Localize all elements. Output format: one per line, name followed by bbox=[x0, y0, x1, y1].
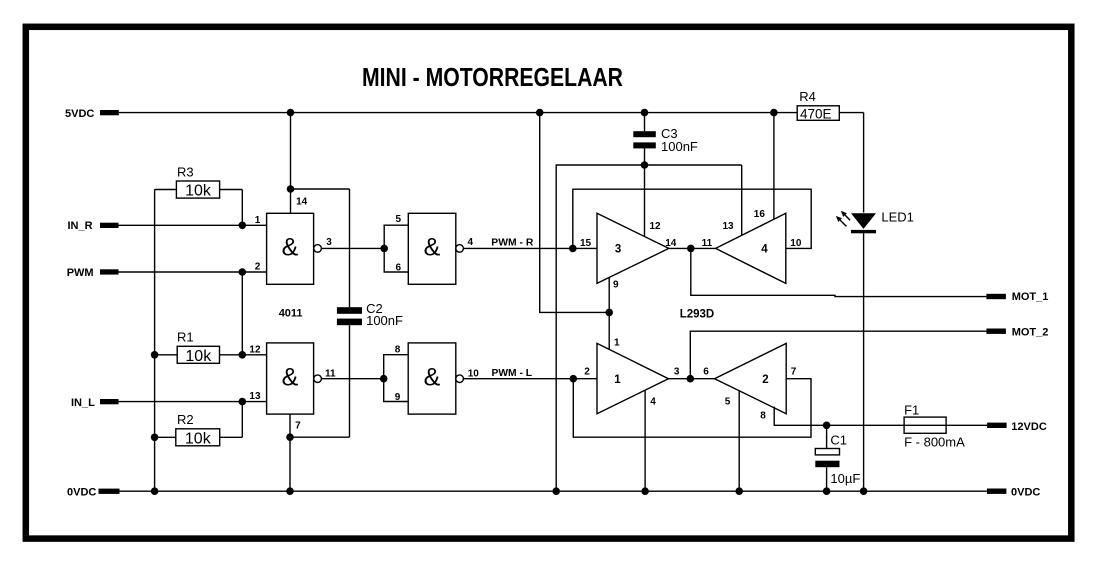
svg-text:10k: 10k bbox=[185, 430, 212, 447]
resistor R4 bbox=[797, 106, 839, 121]
wire R2 left bbox=[155, 436, 176, 438]
wire PWM to pin 2 bbox=[119, 271, 267, 273]
wire 5VDC rail bbox=[119, 112, 797, 114]
terminal pad 0VDC left bbox=[99, 489, 120, 494]
svg-text:3: 3 bbox=[674, 366, 680, 377]
svg-text:2: 2 bbox=[762, 374, 768, 386]
svg-text:12: 12 bbox=[650, 221, 662, 232]
resistor R1 bbox=[177, 346, 219, 363]
svg-text:IN_R: IN_R bbox=[68, 220, 93, 232]
wire R3 left bbox=[155, 189, 177, 191]
svg-text:C1: C1 bbox=[830, 433, 847, 448]
svg-text:14: 14 bbox=[665, 238, 677, 249]
wire pin 4 to 0VDC bbox=[644, 390, 646, 491]
svg-text:11: 11 bbox=[325, 368, 336, 379]
svg-text:MOT_2: MOT_2 bbox=[1012, 326, 1049, 338]
svg-text:13: 13 bbox=[249, 391, 261, 402]
wire C3 lower lead / pin 12 gnd bbox=[644, 148, 646, 236]
svg-text:5: 5 bbox=[725, 397, 731, 408]
svg-text:PWM - R: PWM - R bbox=[491, 238, 534, 249]
svg-text:MINI - MOTORREGELAAR: MINI - MOTORREGELAAR bbox=[362, 64, 623, 92]
wire gate D input loop bbox=[384, 355, 409, 402]
junction gate D input loop bbox=[380, 375, 388, 383]
diode LED1 bbox=[851, 213, 876, 229]
wire IN_L down to R2 bbox=[241, 402, 243, 438]
svg-text:&: & bbox=[424, 234, 441, 262]
wire ground branch to 0VDC bbox=[556, 165, 742, 491]
svg-text:1: 1 bbox=[614, 338, 620, 349]
junction MOT_1 output bbox=[687, 245, 695, 253]
svg-text:LED1: LED1 bbox=[881, 210, 914, 225]
wire pin 13 gnd bbox=[741, 165, 743, 236]
svg-text:PWM: PWM bbox=[67, 267, 94, 279]
svg-text:1: 1 bbox=[255, 215, 261, 226]
svg-text:7: 7 bbox=[295, 421, 301, 432]
wire outputs 14-11 bbox=[669, 247, 716, 249]
junction 5VDC/C3 bbox=[641, 109, 649, 117]
fuse F1 bbox=[904, 417, 946, 433]
junction 0VDC/pin4 bbox=[641, 487, 649, 495]
LED light arrow b bbox=[840, 220, 846, 226]
terminal pad MOT_1 bbox=[986, 294, 1006, 299]
wire R1 right to pin 12 bbox=[220, 354, 267, 356]
wire R2 right bbox=[220, 436, 243, 438]
junction enable pins 9/1 bbox=[605, 309, 613, 317]
resistor R2 bbox=[176, 429, 220, 446]
svg-text:R4: R4 bbox=[799, 89, 816, 104]
svg-text:IN_L: IN_L bbox=[71, 397, 95, 409]
wire pin 5 to 0VDC bbox=[738, 391, 740, 491]
gate U1C 4011 NAND C bbox=[267, 343, 314, 414]
capacitor C1 bbox=[826, 425, 828, 448]
junction 0VDC/LED bbox=[860, 487, 868, 495]
wire R4 to LED bbox=[839, 112, 863, 114]
svg-text:14: 14 bbox=[296, 197, 308, 208]
wire gate C out to gate D in bbox=[321, 378, 383, 380]
LED light arrow a bbox=[845, 215, 850, 220]
svg-text:10: 10 bbox=[790, 238, 802, 249]
svg-text:100nF: 100nF bbox=[661, 139, 698, 154]
wire pin2 to pin7 loop bbox=[573, 379, 811, 438]
svg-text:6: 6 bbox=[396, 263, 402, 274]
wire R1 left bbox=[155, 354, 178, 356]
svg-text:9: 9 bbox=[613, 280, 619, 291]
wire enable pins vertical bbox=[608, 278, 610, 350]
junction gnd/C3 bbox=[641, 161, 649, 169]
svg-text:5: 5 bbox=[396, 214, 402, 225]
wire R3 to IN_R node bbox=[241, 190, 243, 226]
svg-text:10k: 10k bbox=[185, 348, 212, 365]
capacitor C2 bbox=[337, 307, 362, 314]
svg-text:470E: 470E bbox=[800, 106, 832, 121]
junction MOT_2 output bbox=[687, 375, 695, 383]
svg-text:4: 4 bbox=[468, 237, 474, 248]
terminal pad MOT_2 bbox=[986, 329, 1006, 334]
wire pin 8 supply bbox=[774, 407, 826, 426]
svg-text:13: 13 bbox=[723, 221, 735, 232]
junction 0VDC/pin7 bbox=[286, 487, 294, 495]
junction 5VDC/pin14 bbox=[287, 109, 295, 117]
buffer 4 L293D bbox=[716, 213, 786, 283]
svg-text:4: 4 bbox=[761, 243, 768, 255]
wire pin 14 from 5VDC rail to gate U1A bbox=[290, 113, 292, 214]
svg-text:&: & bbox=[282, 234, 299, 262]
wire C2 upper lead bbox=[349, 189, 351, 307]
junction 5VDC/enable branch bbox=[536, 109, 544, 117]
svg-text:16: 16 bbox=[754, 209, 766, 220]
bubble gate D output bbox=[456, 375, 464, 383]
svg-text:3: 3 bbox=[326, 237, 332, 248]
terminal pad IN_L bbox=[100, 399, 119, 404]
op-amp U1A gate 4011 NAND A bbox=[267, 213, 314, 284]
wire outputs 3-6 bbox=[669, 378, 715, 380]
gate U1B 4011 NAND B bbox=[408, 213, 456, 284]
svg-text:F - 800mA: F - 800mA bbox=[904, 434, 965, 449]
bubble gate A output bbox=[314, 245, 322, 253]
wire left pulldown bus bbox=[154, 190, 156, 492]
wire LED cathode to 0VDC bbox=[863, 233, 865, 491]
svg-text:6: 6 bbox=[703, 366, 709, 377]
terminal pad 12VDC bbox=[987, 423, 1007, 428]
wire R3 right bbox=[220, 189, 243, 191]
wire C2 lower lead bbox=[349, 325, 351, 437]
svg-text:PWM - L: PWM - L bbox=[492, 368, 533, 379]
wire MOT_2 bbox=[690, 331, 986, 379]
svg-text:&: & bbox=[424, 363, 441, 391]
svg-text:8: 8 bbox=[395, 345, 401, 356]
terminal pad 0VDC right bbox=[987, 489, 1007, 494]
svg-text:2: 2 bbox=[584, 366, 590, 377]
svg-text:100nF: 100nF bbox=[366, 313, 403, 328]
wire PWM-L net bbox=[463, 378, 597, 380]
svg-text:12VDC: 12VDC bbox=[1011, 421, 1047, 433]
wire pin 16 to 5VDC bbox=[773, 113, 775, 220]
junction 5VDC/pin16 bbox=[770, 109, 778, 117]
capacitor C3 bbox=[633, 131, 656, 137]
svg-text:R3: R3 bbox=[177, 165, 194, 180]
junction gate B input loop bbox=[380, 245, 388, 253]
wire MOT_1 bbox=[691, 248, 987, 296]
svg-text:15: 15 bbox=[580, 238, 592, 249]
svg-text:5VDC: 5VDC bbox=[65, 108, 94, 120]
junction 12VDC/C1 bbox=[823, 422, 831, 430]
junction IN_R/R3 bbox=[239, 222, 247, 230]
svg-text:0VDC: 0VDC bbox=[1011, 487, 1040, 499]
wire 0VDC rail bbox=[120, 490, 987, 492]
junction R2/left bus bbox=[151, 434, 159, 442]
svg-text:12: 12 bbox=[249, 344, 261, 355]
junction pin15 bbox=[569, 245, 577, 253]
junction IN_L/R2 bbox=[239, 398, 247, 406]
wire 12VDC net bbox=[827, 424, 988, 426]
junction 0VDC/C1 bbox=[823, 487, 831, 495]
svg-text:10k: 10k bbox=[185, 183, 212, 200]
svg-text:1: 1 bbox=[614, 374, 621, 386]
terminal pad IN_R bbox=[100, 223, 119, 228]
junction PWM branch bbox=[239, 268, 247, 276]
bubble gate C output bbox=[314, 375, 322, 383]
svg-text:4: 4 bbox=[650, 397, 656, 408]
terminal pad 5VDC bbox=[100, 110, 119, 115]
terminal pad PWM bbox=[100, 269, 119, 274]
bubble gate B output bbox=[456, 245, 464, 253]
wire IN_R to pin 1 bbox=[119, 224, 267, 226]
junction pin14/C2 branch bbox=[287, 185, 295, 193]
gate U1D 4011 NAND D bbox=[408, 343, 456, 414]
wire pin7 to C2 bottom bbox=[290, 436, 350, 438]
svg-text:11: 11 bbox=[702, 238, 713, 249]
svg-text:R1: R1 bbox=[177, 330, 194, 345]
wire PWM-R net bbox=[463, 247, 597, 249]
wire PWM down to pin 12 node bbox=[241, 272, 243, 355]
svg-text:&: & bbox=[282, 363, 299, 391]
wire gate A out to gate B in bbox=[321, 247, 384, 249]
svg-text:10: 10 bbox=[468, 368, 480, 379]
wire gate B input loop bbox=[384, 225, 408, 272]
junction 0VDC/gnd loop bbox=[552, 487, 560, 495]
wire C3 upper lead bbox=[644, 113, 646, 132]
buffer 2 L293D bbox=[715, 343, 787, 413]
svg-text:7: 7 bbox=[791, 366, 797, 377]
svg-text:0VDC: 0VDC bbox=[67, 486, 96, 498]
svg-text:3: 3 bbox=[615, 243, 621, 255]
junction 0VDC/pin5 bbox=[735, 487, 743, 495]
junction pin2 L293D bbox=[570, 375, 578, 383]
svg-text:2: 2 bbox=[255, 262, 261, 273]
junction R1/left bus bbox=[151, 351, 159, 359]
wire LED anode lead bbox=[863, 113, 865, 213]
wire enable branch from 5VDC bbox=[540, 113, 610, 313]
svg-text:L293D: L293D bbox=[680, 309, 715, 321]
junction pin7/C2 bbox=[286, 433, 294, 441]
resistor R3 bbox=[176, 181, 219, 198]
svg-text:9: 9 bbox=[395, 392, 401, 403]
svg-text:10µF: 10µF bbox=[830, 471, 860, 486]
svg-text:4011: 4011 bbox=[279, 308, 303, 320]
buffer 1 L293D bbox=[597, 343, 669, 413]
svg-text:F1: F1 bbox=[904, 402, 919, 417]
wire pin15 to pin10 loop bbox=[573, 189, 811, 248]
wire IN_L to pin 13 bbox=[119, 401, 267, 403]
svg-text:MOT_1: MOT_1 bbox=[1012, 291, 1049, 303]
junction 0VDC/left bus bbox=[151, 487, 159, 495]
junction pin12/PWM/R1 bbox=[239, 351, 247, 359]
svg-text:R2: R2 bbox=[177, 412, 194, 427]
svg-text:8: 8 bbox=[760, 410, 766, 421]
wire pin14 to C2 top bbox=[291, 188, 350, 190]
wire pin 7 to 0VDC bbox=[289, 414, 291, 491]
buffer 3 L293D bbox=[597, 213, 669, 283]
